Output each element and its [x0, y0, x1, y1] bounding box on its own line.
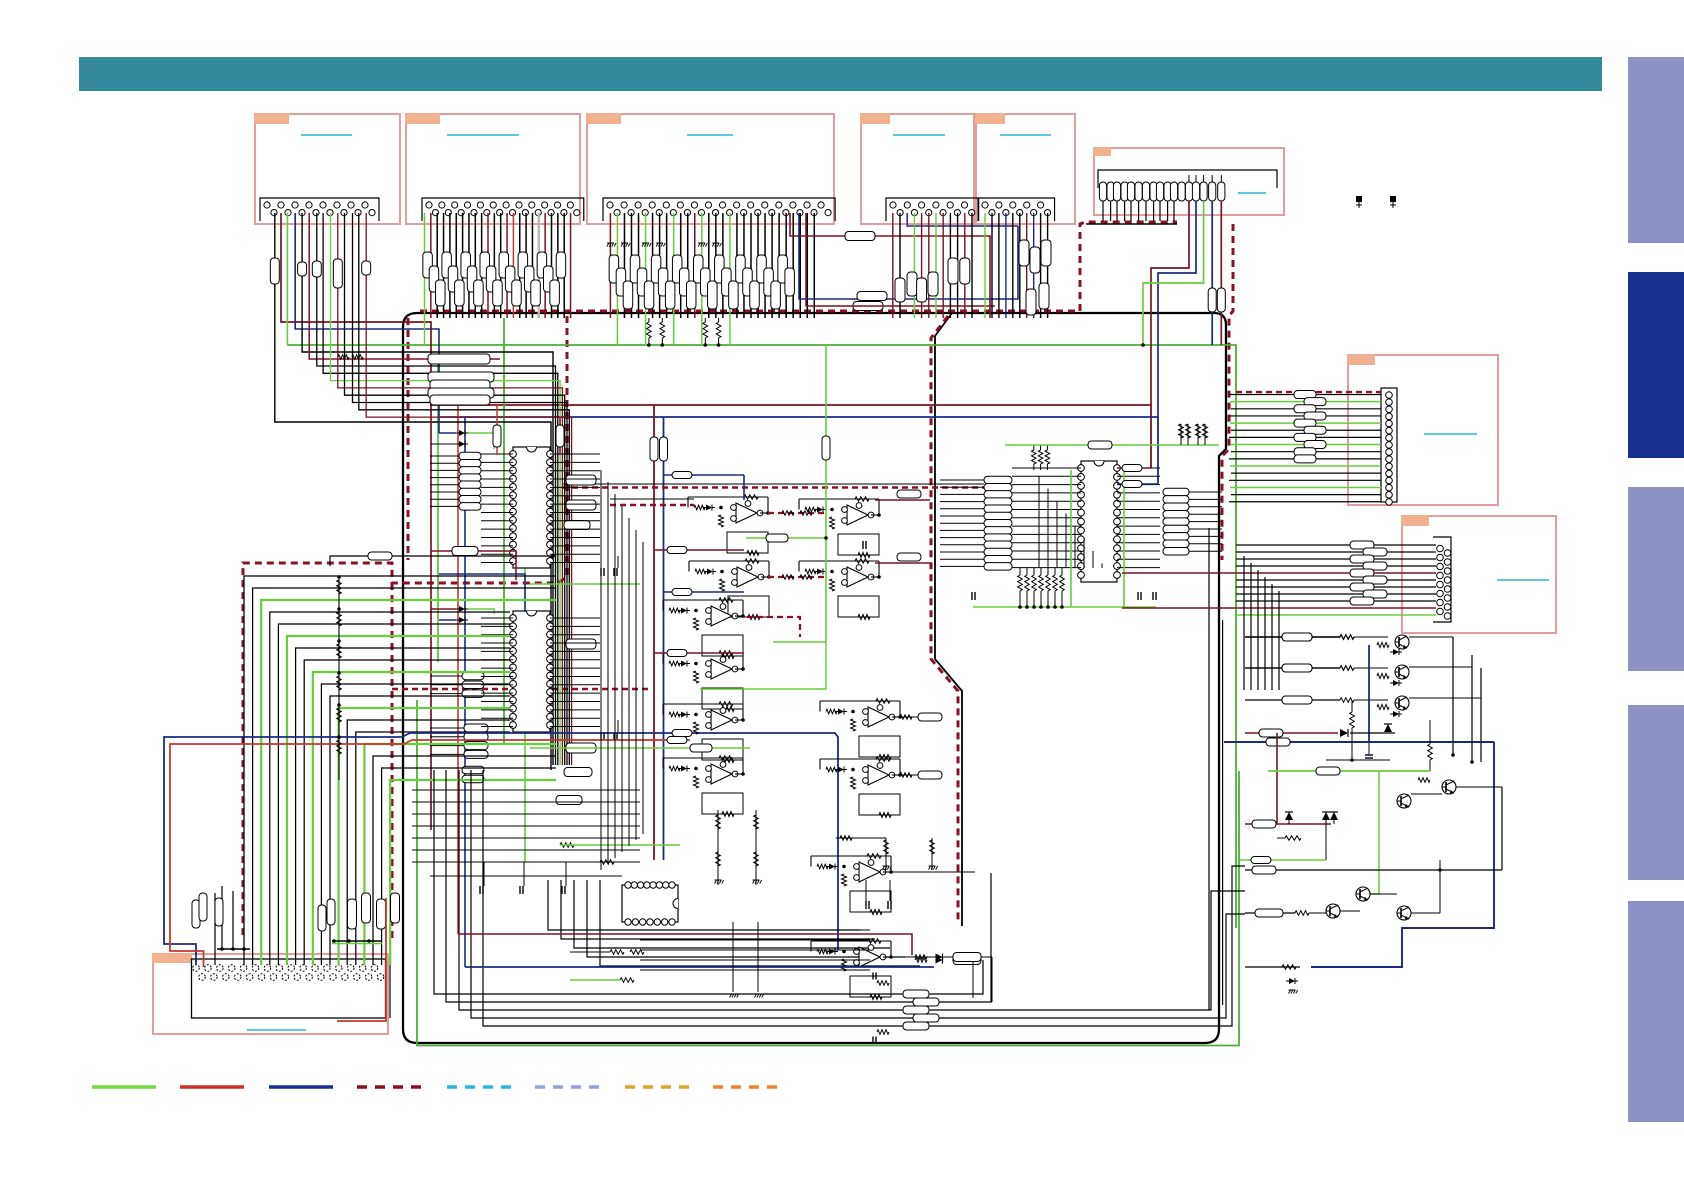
page header bar — [79, 57, 1602, 91]
green feed above U3 — [1005, 441, 1219, 449]
caps left of U4 — [480, 862, 566, 894]
label on loop feeder — [330, 552, 555, 566]
op-amp U14 — [820, 757, 902, 818]
navy rail left — [464, 417, 466, 967]
labels on CN5 harness — [1019, 240, 1051, 315]
wires fanning from U4 — [640, 930, 870, 970]
harness from CN3 — [610, 213, 814, 345]
op-amp U9 — [663, 598, 745, 659]
zener pair top left of U2 — [431, 606, 494, 623]
feeds into U2 top — [431, 547, 525, 613]
wires right of U1 — [550, 454, 600, 563]
diode D3 — [1330, 812, 1338, 824]
op-amp U5 — [688, 495, 770, 556]
green link lower — [640, 744, 750, 752]
left mid horizontal feeders — [412, 790, 640, 862]
resistor under dark red feed — [1277, 824, 1326, 860]
green rail right of U1 — [524, 455, 526, 862]
green rails flanking U3 — [1071, 470, 1124, 607]
red rail mid — [650, 405, 658, 860]
navy rail mid — [660, 417, 668, 860]
bus harness dashed right edge — [1222, 224, 1233, 560]
harness into CN8 — [1122, 545, 1436, 615]
navy bus at U4 — [465, 966, 934, 968]
dashed input to amp A1 — [610, 499, 694, 505]
legend solid red — [180, 1085, 244, 1088]
opamp A12 output network — [887, 953, 992, 1003]
IC U1 — [510, 447, 554, 568]
wires right of U3 and labels — [1117, 468, 1222, 568]
nested risers below CN8 harness — [1244, 556, 1279, 690]
bus harness dashed riser to CN6 — [1080, 222, 1177, 311]
op-amp U7 — [689, 559, 771, 620]
opamp A11 output network — [887, 872, 981, 998]
diode D2 — [1322, 812, 1330, 824]
green column mid — [822, 345, 830, 642]
transistor Q3 — [1395, 696, 1409, 710]
sidebar tab 3 — [1628, 487, 1684, 671]
labels on CN3 harness — [609, 255, 794, 309]
labels on CN4 harness — [895, 258, 970, 302]
transistor Q1 — [1395, 635, 1409, 649]
collector rails Q1-Q3 — [1409, 637, 1481, 764]
mid harness to opamp area — [548, 880, 920, 966]
bus harness dashed left loop — [243, 316, 567, 940]
sidebar tab 1 — [1628, 57, 1684, 243]
resistors below U4 — [570, 950, 644, 983]
long link U1 to U3 with dashed pair — [484, 0, 984, 488]
green bus top — [287, 345, 1236, 928]
navy feed across left — [164, 733, 838, 965]
harness from CN4 — [893, 213, 1018, 318]
connector block CN1 — [254, 113, 400, 224]
black rail mid-board — [1208, 528, 1210, 1010]
IC U4 — [622, 882, 678, 925]
labels on CN6 harness — [1208, 288, 1225, 312]
connector CN6 bracket and pins — [1098, 170, 1277, 201]
red rail left — [457, 405, 459, 934]
dark red low feed with diodes — [1245, 820, 1331, 828]
labels above U1 — [493, 405, 564, 455]
op-amp U12 — [663, 756, 745, 817]
row into Q7 — [1245, 909, 1326, 917]
red wire at CN9 right — [337, 898, 386, 1021]
cap on supply — [1365, 742, 1373, 758]
base networks Q1-Q3 — [1369, 643, 1402, 743]
navy supply bus — [1224, 738, 1494, 746]
op-amp U15 — [811, 854, 893, 915]
transistor Q2 — [1395, 665, 1409, 679]
zigzag and diode pair mid — [1326, 700, 1392, 762]
connector block CN6 — [1093, 147, 1284, 215]
navy supply return — [1311, 742, 1494, 967]
dark red feed with diode — [1245, 729, 1395, 824]
staircase verticals below U3 left wires — [1039, 476, 1102, 568]
connector CN9 body — [192, 959, 386, 1018]
main board outline — [403, 313, 1226, 1043]
chassis ground symbols on CN3 harness — [607, 243, 722, 247]
resistor chain column x339 — [337, 575, 342, 780]
labels on bottom harness — [903, 990, 939, 1030]
bus harness dashed top — [420, 310, 1078, 313]
green black wire row — [1240, 857, 1326, 864]
amp input feeds navy — [664, 472, 745, 501]
caps below U3 — [972, 592, 1156, 600]
resistor dividers right of U4 — [836, 836, 938, 870]
red feed across left — [170, 740, 690, 967]
bus crossing verticals mid — [601, 470, 643, 870]
legend dashed orange — [713, 1085, 779, 1088]
resistor labels left of U3 — [984, 476, 1012, 570]
transistor Q8 — [1397, 906, 1411, 920]
wires into U1 left — [430, 454, 513, 563]
harness from CN6 black pins to bus — [1103, 201, 1174, 221]
labels on CN7 harness — [1294, 391, 1326, 463]
wires at U4 — [430, 843, 680, 876]
plain row 870 — [1245, 787, 1502, 874]
legend dashed dark red — [357, 1085, 424, 1088]
decoupling caps below U2 — [530, 720, 640, 748]
connector CN3 pins — [603, 198, 835, 221]
emitter links lower — [1340, 860, 1442, 913]
connector CN9 pins — [193, 959, 390, 1018]
harness from CN2 — [425, 213, 571, 345]
legend solid navy — [269, 1085, 333, 1088]
harness into CN7 — [1229, 395, 1381, 502]
bus harness dashed interior — [931, 316, 958, 924]
cap pair right of U4 — [866, 880, 891, 909]
page note symbols — [1356, 196, 1362, 208]
green rail left inner — [437, 361, 439, 662]
transistor Q4 — [1442, 780, 1456, 794]
amp input feeds red — [654, 547, 744, 554]
connector block CN5 — [975, 113, 1075, 224]
bus harness dashed inner left — [407, 318, 410, 560]
link loop CN3 to CN4 navy — [799, 213, 1018, 311]
op-amp U16 — [811, 939, 893, 1000]
bus harness dashed loop right edge — [391, 583, 394, 942]
harness loop from CN9 — [244, 576, 556, 965]
harness from CN1 — [275, 213, 572, 830]
op-amp U11 — [663, 702, 745, 763]
red bus top — [430, 405, 1151, 468]
red bus at U4 — [458, 934, 912, 955]
labels on CN8 harness — [1350, 541, 1387, 605]
op-amp U10 — [663, 651, 745, 712]
wires right of U2 — [550, 618, 600, 727]
labels on CN2 harness — [423, 252, 566, 306]
wires into U3 left — [940, 468, 1081, 568]
resistor column below U3 — [1018, 568, 1065, 609]
transistor Q5 — [1397, 794, 1411, 808]
row 967 network — [1245, 965, 1300, 994]
dashed lead on CN7 top wire — [1236, 391, 1381, 393]
resistor dividers above U4 — [715, 810, 762, 885]
op-amp U8 — [799, 559, 881, 620]
input resistor labels left of U1 — [459, 452, 481, 510]
bottom harness to right side — [434, 770, 1245, 1026]
green rail left — [503, 318, 505, 745]
short feeders into CN9 left pins — [215, 886, 233, 965]
connector block CN7 — [1347, 354, 1498, 505]
link Q4 Q5 — [1411, 778, 1502, 794]
op-amp U6 — [799, 497, 881, 558]
transistor Q7 — [1326, 904, 1340, 918]
zener pair top left of U1 — [431, 430, 494, 449]
green return bus below U3 — [973, 606, 1156, 608]
connector CN7 pin strip — [1381, 388, 1397, 505]
big labels mid-left — [428, 354, 494, 405]
green ground loop along board edge — [417, 700, 1239, 1046]
connector block CN8 — [1401, 515, 1556, 633]
navy bus top — [440, 417, 1158, 484]
labels on CN1 harness — [270, 258, 370, 288]
sidebar tab 2 (active) — [1628, 272, 1684, 458]
red link to CN6 drop — [1117, 465, 1151, 472]
resistors above U3 — [1032, 445, 1050, 470]
driver rows to Q1-Q3 — [1245, 633, 1388, 641]
labels near CN9 — [192, 893, 400, 931]
sidebar tab 4 — [1628, 705, 1684, 880]
board interior partition — [935, 313, 962, 926]
amp output wires right — [875, 490, 930, 500]
diode D1 — [1285, 812, 1293, 824]
input resistor labels left of U2 — [462, 672, 488, 783]
connector CN5 pins — [978, 198, 1055, 221]
link loop lower dark red — [806, 213, 995, 306]
sidebar tab 5 — [1628, 901, 1684, 1122]
navy link to CN6 drop — [1117, 481, 1158, 488]
green rail lower right — [1268, 767, 1430, 894]
feedback caps for A11 A12 — [873, 973, 889, 1044]
link loop CN3 to CN4 dark red — [790, 213, 990, 318]
connector block CN2 — [405, 113, 580, 224]
connector block CN9 — [152, 953, 388, 1034]
harness from CN5 — [985, 213, 1048, 318]
dashed link lower — [392, 688, 648, 690]
connector CN1 pins — [260, 198, 379, 221]
legend dashed amber — [625, 1085, 690, 1088]
connector CN4 pins — [886, 198, 979, 221]
IC U2 — [510, 611, 554, 732]
legend solid green — [92, 1085, 156, 1088]
inter-amp dashed links — [768, 511, 826, 516]
harness from CN6 colored — [1151, 201, 1189, 405]
connector block CN3 — [586, 113, 834, 224]
legend dashed periwinkle — [535, 1085, 602, 1088]
hatched grounds below U4 — [730, 922, 764, 998]
left verticals in transistor area — [1222, 620, 1224, 1005]
resistor on supply right — [1428, 720, 1433, 771]
connector block CN4 — [860, 113, 974, 224]
resistors below CN3 harness — [647, 318, 721, 347]
IC U3 — [1078, 461, 1121, 582]
resistor pair mid-left — [338, 355, 363, 360]
transistor Q6 — [1356, 887, 1370, 901]
connector CN8 pins — [1433, 537, 1451, 622]
green branch at A1 — [746, 534, 866, 549]
connector CN2 pins — [422, 198, 584, 221]
junction wiring above CN9 — [217, 939, 382, 951]
labels right of U1 — [564, 475, 596, 530]
legend dashed cyan — [447, 1085, 512, 1088]
resistors right above U3 — [1179, 424, 1208, 445]
wires into U2 left — [430, 618, 513, 754]
decoupling caps below U1 — [530, 556, 640, 584]
labels right of U2 — [556, 639, 596, 805]
op-amp U13 — [820, 699, 902, 760]
